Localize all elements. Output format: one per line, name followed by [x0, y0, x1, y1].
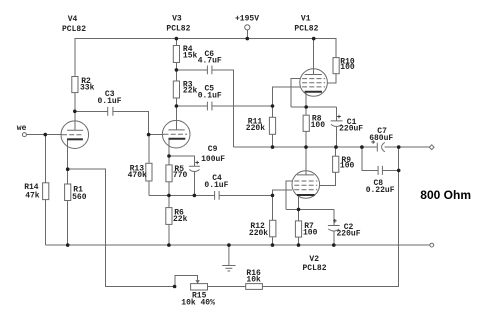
node R12 / ground bus	[271, 243, 275, 247]
svg-text:we: we	[17, 124, 27, 133]
svg-text:470k: 470k	[128, 171, 147, 180]
wire R7 column	[298, 209, 300, 245]
svg-text:PCL82: PCL82	[303, 264, 327, 273]
node V2 cathode / R7	[297, 208, 301, 212]
wire V1 g1	[273, 87, 300, 106]
tube V1 PCL82 pentode	[300, 69, 328, 97]
capacitor C1 220uF plates	[331, 121, 343, 127]
svg-text:22k: 22k	[173, 215, 188, 224]
node V3 grid / R13	[147, 133, 151, 137]
svg-text:220uF: 220uF	[339, 124, 363, 133]
wire R15 wiper	[175, 276, 198, 287]
svg-text:100: 100	[340, 63, 355, 72]
resistor R11 220k	[269, 117, 275, 134]
resistor R4 15k	[173, 46, 179, 63]
terminal input we	[22, 133, 26, 137]
node R6 / ground bus	[167, 243, 171, 247]
resistor R9 100	[333, 156, 339, 172]
node V4 cathode	[66, 167, 70, 171]
wire C8 branch	[362, 147, 399, 170]
svg-text:220k: 220k	[249, 229, 268, 238]
wire input	[27, 134, 63, 136]
capacitor C8 0.22uF plates	[378, 166, 382, 175]
node R5-R6	[167, 194, 171, 198]
wire R15-R16 link	[208, 286, 246, 288]
resistor R15 10k 40% pot body	[191, 284, 208, 290]
resistor R7 100	[295, 221, 301, 237]
node R8 bottom / V2 plate	[304, 145, 308, 149]
svg-text:0.22uF: 0.22uF	[366, 186, 395, 195]
svg-text:22k: 22k	[183, 87, 198, 96]
wire R14 column	[44, 135, 46, 246]
capacitor C3 0.1uF plates	[108, 107, 113, 116]
plus sign C9	[195, 161, 199, 165]
node R11 bottom	[271, 145, 275, 149]
wire C3 branch	[75, 111, 149, 134]
wire V4 plate column	[74, 93, 76, 131]
wire C6 branch	[176, 70, 233, 147]
svg-text:100uF: 100uF	[201, 155, 225, 164]
wire V1 cathode node	[291, 92, 337, 107]
tube V2 PCL82 pentode	[292, 171, 320, 199]
node R1 / ground bus	[66, 243, 70, 247]
wire grid bus 2	[149, 194, 273, 196]
terminal output top	[429, 145, 434, 150]
resistor R14 47k	[43, 183, 49, 200]
tube V4 PCL82 triode	[61, 121, 89, 149]
wire R12 column	[272, 195, 274, 245]
wire V4 cathode column	[67, 139, 69, 245]
ground	[222, 245, 235, 271]
wire V1 plate	[313, 39, 315, 75]
svg-text:PCL82: PCL82	[294, 24, 318, 33]
svg-text:680uF: 680uF	[369, 134, 393, 143]
wire V2 plate	[305, 147, 307, 175]
node V1 cathode	[304, 105, 308, 109]
node top bus / R4	[175, 37, 179, 41]
node V3 cathode	[167, 154, 171, 158]
node R11 top	[271, 104, 275, 108]
wire V3 plate column	[175, 39, 177, 130]
resistor R6 22k	[166, 208, 172, 225]
wire R8 column	[305, 107, 307, 147]
wire R9 column	[320, 147, 336, 185]
node output top	[397, 145, 401, 149]
wire +195V lead	[246, 30, 248, 39]
wire R5 column	[168, 156, 170, 195]
node R15 left	[173, 285, 177, 289]
node top bus / V1 plate	[312, 37, 316, 41]
terminal +195V	[245, 25, 250, 30]
resistor R3 22k	[173, 81, 179, 98]
wire C5 branch	[176, 105, 272, 107]
svg-text:33k: 33k	[80, 83, 95, 92]
wire R11 column	[272, 106, 274, 147]
resistor R2 33k	[72, 77, 78, 93]
terminal output bottom	[430, 243, 434, 247]
capacitor C2 220uF plates	[328, 226, 340, 232]
node ground symbol	[227, 243, 231, 247]
node input / R14	[44, 133, 48, 137]
svg-text:+195V: +195V	[235, 14, 259, 23]
capacitor C7 680uF plates	[377, 142, 385, 151]
svg-text:V3: V3	[172, 15, 182, 24]
wire C9 bottom	[193, 172, 195, 196]
wire V2 g1	[273, 190, 292, 195]
svg-text:220uF: 220uF	[337, 230, 361, 239]
wire V1 g3 tie	[291, 79, 300, 107]
node C2 / ground bus	[332, 243, 336, 247]
wire V2 cathode node	[286, 195, 334, 209]
svg-text:10k 40%: 10k 40%	[181, 298, 215, 307]
plus sign C7	[371, 140, 375, 144]
plus sign C1	[337, 115, 341, 119]
wire R16 right to riser	[262, 147, 398, 286]
svg-text:220k: 220k	[246, 124, 265, 133]
svg-text:V1: V1	[301, 14, 311, 23]
resistor R12 220k	[270, 220, 276, 237]
svg-text:15k: 15k	[183, 51, 198, 60]
wire top bus	[75, 39, 336, 77]
wire R13 column	[148, 135, 150, 196]
resistor R1 560	[65, 184, 71, 201]
svg-text:PCL82: PCL82	[166, 24, 190, 33]
node R4-R3 / C6	[175, 68, 179, 72]
svg-text:4.7uF: 4.7uF	[198, 57, 222, 66]
capacitor C4 0.1uF plates	[215, 191, 220, 200]
svg-text:100: 100	[303, 228, 318, 237]
wire V2 g3 tie	[286, 181, 292, 209]
svg-text:C9: C9	[208, 145, 218, 154]
wire C1 column	[335, 107, 337, 147]
node C1 bottom / R9 top	[334, 145, 338, 149]
capacitor C9 100uF plates	[189, 166, 200, 171]
resistor R8 100	[303, 115, 309, 131]
svg-text:100: 100	[311, 121, 326, 130]
wire V1 g2 to R10	[327, 74, 336, 83]
wire C2 column	[333, 209, 335, 245]
node R12 top / V2 g1	[271, 194, 275, 198]
node top bus / +195V	[246, 37, 250, 41]
tube V3 PCL82 triode	[162, 120, 190, 148]
svg-text:PCL82: PCL82	[62, 25, 86, 34]
svg-text:V2: V2	[309, 255, 319, 264]
svg-text:100: 100	[340, 161, 355, 170]
resistor R16 10k	[246, 284, 263, 290]
node C8 right	[397, 169, 401, 173]
wire output bus	[234, 146, 430, 148]
wire feedback left	[68, 169, 175, 286]
plus sign C2	[333, 219, 337, 223]
node R7 / ground bus	[297, 243, 301, 247]
node C8 branch	[360, 145, 364, 149]
wire ground bus	[45, 244, 430, 246]
capacitor C6 4.7uF plates	[207, 66, 212, 75]
svg-text:47k: 47k	[25, 191, 40, 200]
svg-text:0.1uF: 0.1uF	[198, 92, 222, 101]
node V4 plate / C3	[73, 110, 77, 114]
svg-text:0.1uF: 0.1uF	[98, 97, 122, 106]
svg-text:770: 770	[173, 171, 188, 180]
svg-text:V4: V4	[68, 15, 78, 24]
wire R6 column	[168, 195, 170, 245]
svg-text:10k: 10k	[246, 275, 261, 284]
svg-text:560: 560	[72, 193, 87, 202]
resistor R10 100	[333, 58, 339, 74]
svg-text:0.1uF: 0.1uF	[204, 181, 228, 190]
resistor R5 770	[166, 165, 172, 182]
potentiometer R15 wiper arrowhead	[195, 280, 199, 284]
node C9 bottom	[193, 194, 197, 198]
resistor R13 470k	[146, 163, 152, 181]
wire V3 cathode column	[169, 139, 194, 166]
node V3 plate / C5	[175, 104, 179, 108]
wire V3 grid	[148, 133, 163, 135]
capacitor C5 0.1uF plates	[207, 102, 212, 111]
svg-text:800 Ohm: 800 Ohm	[420, 188, 471, 202]
